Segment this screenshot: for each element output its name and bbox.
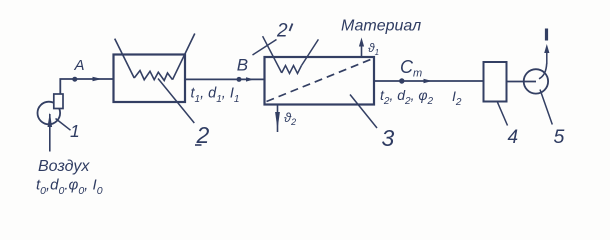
svg-text:3: 3 [382,125,395,151]
node Cm dot [399,78,404,83]
svg-text:1: 1 [70,121,80,141]
svg-text:5: 5 [554,126,565,148]
dryer heater 2' right lead [302,39,319,65]
leader line to label 4 [498,102,508,125]
wire dryer to unit 4 [374,80,484,82]
svg-text:A: A [74,57,85,74]
node B dot [237,77,242,82]
leader line to label 5 [540,90,552,125]
svg-text:2: 2 [276,21,288,42]
dryer heater 2' left lead [263,36,282,73]
material inlet arrow [359,38,364,58]
dashed material bed line [267,60,371,102]
fan 1 circle [38,102,61,125]
fan 5 outlet curl [539,64,547,79]
leader line to label 2 [158,79,194,124]
heater 2 left lead [115,39,135,78]
arrow A to heater [93,77,103,81]
dryer heater 2' zigzag [282,66,302,74]
leader line to label 3 [350,95,377,129]
fan 1 outlet duct [54,94,63,109]
arrow B to dryer [246,77,254,81]
heater 2 right lead [173,34,195,80]
air inlet arrow into fan 1 [48,113,53,152]
unit 4 box [484,62,507,102]
heater 2 box [114,55,186,103]
label 2 underline [195,144,202,146]
wire fan1 to A corner [60,79,113,95]
wire heater to dryer [185,78,265,80]
svg-text:B: B [237,56,248,75]
wire unit 4 to fan 5 [507,81,537,83]
arrow Cm to unit 4 [424,79,433,83]
heater 2 zigzag element [134,71,172,81]
leader line to label 1 [56,119,71,131]
svg-text:4: 4 [508,127,519,148]
leader line to label 2' [253,40,277,56]
svg-text:Материал: Материал [341,18,421,35]
svg-text:Воздух: Воздух [38,158,90,175]
fan 5 exhaust arrow [544,29,549,65]
svg-text:2: 2 [196,122,210,148]
material outlet arrow (theta2) [275,105,280,133]
fan 5 circle [524,69,548,93]
node A dot [72,77,77,82]
dryer 3 box [265,57,375,105]
